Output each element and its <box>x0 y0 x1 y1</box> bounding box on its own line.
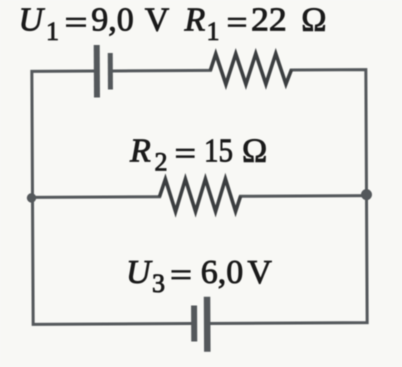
svg-text:U: U <box>126 254 153 291</box>
svg-text:1: 1 <box>46 17 59 46</box>
svg-text:3: 3 <box>152 269 165 298</box>
svg-text:=: = <box>175 136 197 173</box>
svg-text:1: 1 <box>207 17 220 46</box>
svg-text:R: R <box>129 133 151 170</box>
svg-text:V: V <box>247 254 272 291</box>
svg-text:V: V <box>145 2 170 39</box>
svg-text:U: U <box>19 2 46 39</box>
svg-text:=: = <box>227 5 248 42</box>
svg-text:Ω: Ω <box>301 2 326 39</box>
svg-text:15: 15 <box>204 133 233 170</box>
svg-text:2: 2 <box>155 148 168 177</box>
svg-text:6,0: 6,0 <box>201 254 244 291</box>
svg-text:22: 22 <box>251 2 287 39</box>
svg-text:Ω: Ω <box>242 133 267 170</box>
svg-text:=: = <box>65 5 88 42</box>
svg-text:=: = <box>170 257 192 294</box>
svg-text:R: R <box>184 2 206 39</box>
svg-text:9,0: 9,0 <box>91 2 134 39</box>
